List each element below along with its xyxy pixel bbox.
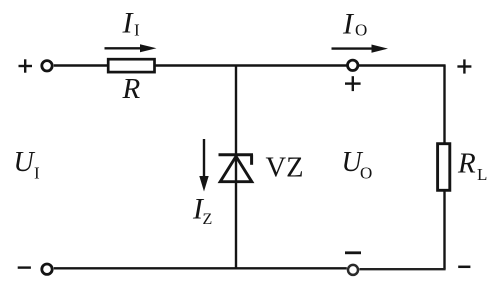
svg-text:R: R <box>457 148 476 180</box>
current arrow I_Z <box>199 139 208 192</box>
svg-text:I: I <box>34 164 40 183</box>
svg-text:U: U <box>14 147 36 178</box>
resistor R (box) <box>108 59 154 72</box>
plus sign input + <box>19 59 33 72</box>
minus sign above bottom output terminal <box>345 251 361 254</box>
minus sign right bottom <box>458 266 470 269</box>
svg-text:I: I <box>134 21 140 40</box>
svg-text:L: L <box>477 165 487 184</box>
input terminal bottom (circle) <box>42 264 52 274</box>
zener diode VZ (symbol) <box>219 155 254 182</box>
resistor RL (box) <box>438 144 450 191</box>
current arrow I_I <box>105 44 157 52</box>
svg-text:R: R <box>122 73 141 105</box>
wire top-middle segment <box>156 64 347 66</box>
wire zener branch vertical <box>235 66 237 269</box>
svg-text:O: O <box>360 164 372 183</box>
wire top-left segment <box>54 64 108 66</box>
current arrow I_O <box>332 45 389 53</box>
output terminal bottom (circle) <box>348 265 358 275</box>
svg-text:Z: Z <box>203 211 213 228</box>
wire right vertical lower <box>443 191 445 270</box>
wire right vertical upper <box>443 66 445 144</box>
input terminal top (circle) <box>42 61 52 71</box>
output terminal top (circle) <box>348 60 358 70</box>
wire bottom-left segment <box>54 267 347 269</box>
wire top-right segment <box>359 64 446 66</box>
svg-text:O: O <box>355 21 367 40</box>
plus sign right <box>457 59 471 73</box>
svg-text:VZ: VZ <box>266 152 304 183</box>
plus sign under output terminal <box>345 76 361 91</box>
minus sign input - <box>18 266 31 268</box>
wire bottom-right segment <box>359 268 445 270</box>
